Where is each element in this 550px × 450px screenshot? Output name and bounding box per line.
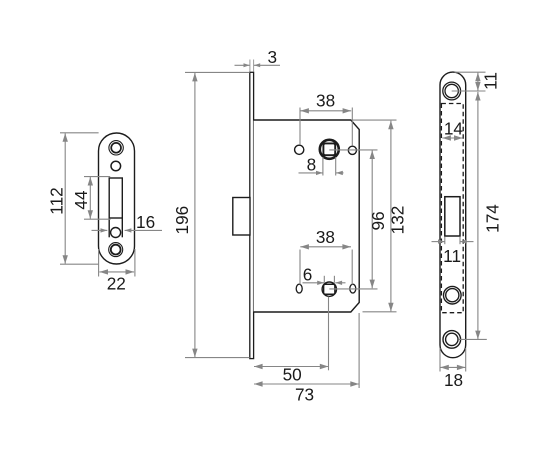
- svg-text:44: 44: [71, 190, 91, 210]
- svg-text:196: 196: [172, 206, 192, 235]
- svg-text:6: 6: [303, 264, 313, 284]
- svg-text:3: 3: [268, 47, 278, 67]
- svg-text:112: 112: [46, 187, 66, 214]
- svg-text:50: 50: [283, 365, 302, 385]
- svg-text:18: 18: [444, 370, 463, 390]
- svg-text:38: 38: [316, 227, 335, 247]
- svg-text:73: 73: [295, 385, 314, 405]
- svg-text:22: 22: [107, 274, 126, 294]
- svg-text:132: 132: [388, 206, 408, 235]
- svg-text:11: 11: [481, 72, 501, 90]
- svg-text:174: 174: [483, 204, 503, 233]
- svg-text:14: 14: [444, 119, 464, 139]
- svg-text:96: 96: [368, 211, 388, 230]
- svg-text:11: 11: [443, 246, 461, 266]
- svg-text:8: 8: [307, 154, 317, 174]
- svg-text:38: 38: [316, 90, 335, 110]
- svg-text:16: 16: [136, 212, 155, 232]
